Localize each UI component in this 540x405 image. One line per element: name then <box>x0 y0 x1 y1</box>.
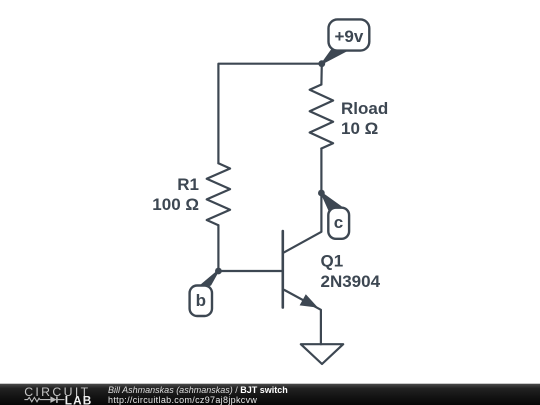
node c label box <box>328 208 349 239</box>
footer credit line 1 <box>108 385 288 395</box>
node junction c <box>318 190 325 197</box>
ground <box>301 344 343 364</box>
wire: Rload bottom to node c <box>320 149 322 194</box>
power supply +9v flag pointer <box>322 50 348 64</box>
Q1 emitter lead <box>284 290 321 344</box>
svg-text:2N3904: 2N3904 <box>321 272 381 291</box>
svg-text:b: b <box>196 291 206 310</box>
wire: node b to transistor base <box>218 270 282 272</box>
node b label box <box>190 286 212 317</box>
resistor Rload (body zigzag) <box>310 85 333 149</box>
svg-text:R1: R1 <box>177 175 199 194</box>
svg-text:c: c <box>334 213 343 232</box>
wire: R1 bottom to node b <box>217 225 219 271</box>
footer bar <box>0 383 540 405</box>
Q1 collector lead <box>284 193 321 252</box>
power supply +9v label box <box>329 19 370 50</box>
node c flag pointer <box>321 193 342 211</box>
svg-text:+9v: +9v <box>334 27 363 46</box>
transistor Q1 2N3904 <box>283 193 322 344</box>
Q1 emitter arrow <box>300 294 318 307</box>
node junction at +9v rail <box>318 60 325 67</box>
svg-text:10 Ω: 10 Ω <box>341 119 378 138</box>
svg-text:Q1: Q1 <box>321 252 344 271</box>
wire: top-left L from R1 top up and across to top node <box>218 64 321 164</box>
resistor R1 (body zigzag) <box>207 163 230 225</box>
node junction b <box>215 268 222 275</box>
svg-text:100 Ω: 100 Ω <box>152 195 199 214</box>
svg-text:Rload: Rload <box>341 99 388 118</box>
Q1 base bar <box>281 231 284 308</box>
svg-text:LAB: LAB <box>65 394 93 405</box>
CircuitLab logo <box>23 385 105 405</box>
node b flag pointer <box>197 270 219 289</box>
footer credit line 2 <box>108 395 257 405</box>
wire: top node down to Rload top <box>320 64 323 85</box>
